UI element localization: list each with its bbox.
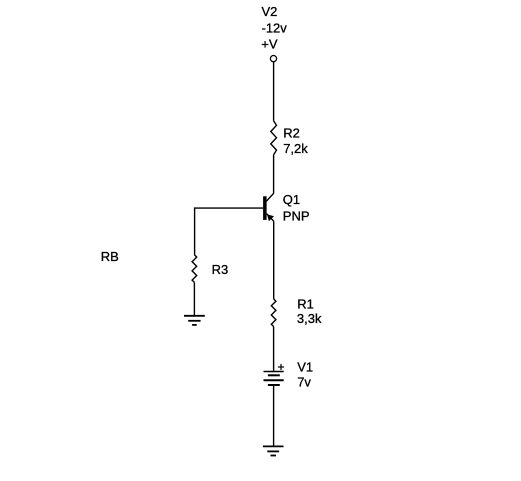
resistor R2 xyxy=(271,121,277,155)
svg-text:7v: 7v xyxy=(297,375,311,390)
transistor Q1 base bar xyxy=(263,196,267,220)
svg-text:PNP: PNP xyxy=(283,208,310,223)
wire R3 to ground xyxy=(193,282,195,315)
wire R2 to Q1 collector xyxy=(273,155,275,194)
svg-text:7,2k: 7,2k xyxy=(283,141,308,156)
svg-text:R2: R2 xyxy=(283,126,300,141)
power terminal +V xyxy=(270,56,276,62)
transistor Q1 collector lead xyxy=(266,193,273,201)
battery V1 xyxy=(264,372,284,386)
ground (R3 branch) xyxy=(184,316,205,325)
wire Q1 base xyxy=(195,207,264,209)
wire Q1 emitter to R1 xyxy=(273,221,275,299)
battery V1 plus mark xyxy=(278,364,284,370)
svg-text:3,3k: 3,3k xyxy=(297,311,322,326)
transistor Q1 emitter lead xyxy=(267,214,274,221)
svg-text:R1: R1 xyxy=(297,296,314,311)
resistor R1 xyxy=(271,299,276,327)
svg-text:Q1: Q1 xyxy=(283,192,300,207)
resistor R3 xyxy=(192,255,197,283)
ground (bottom) xyxy=(263,446,284,455)
wire V1 to ground xyxy=(273,386,275,447)
svg-text:V2: V2 xyxy=(262,4,278,19)
svg-text:RB: RB xyxy=(101,249,119,264)
svg-text:+V: +V xyxy=(261,36,278,51)
transistor Q1 emitter arrow (PNP) xyxy=(267,214,274,221)
svg-text:R3: R3 xyxy=(212,262,229,277)
wire base corner down to R3 xyxy=(194,207,196,254)
wire R1 to V1 xyxy=(273,327,275,371)
svg-text:-12v: -12v xyxy=(262,20,288,35)
wire terminal to R2 xyxy=(273,62,275,121)
svg-text:V1: V1 xyxy=(297,360,313,375)
